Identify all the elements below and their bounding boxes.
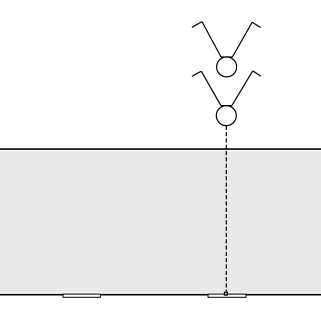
F2 right arm bbox=[232, 71, 253, 106]
fixture F1 (upper double-arm spotlight symbol) bbox=[192, 22, 261, 77]
wall bottom edge line bbox=[0, 294, 321, 296]
window W2 (sill rectangle) bbox=[208, 294, 246, 297]
wall top edge line bbox=[0, 148, 321, 150]
F2 right tick bbox=[253, 71, 261, 76]
F1 top chord bbox=[221, 56, 232, 58]
F2 left arm bbox=[201, 71, 221, 105]
F2 lamp circle bbox=[216, 106, 236, 126]
F1 lamp circle bbox=[217, 57, 237, 77]
wall face (shaded band) bbox=[0, 151, 321, 292]
dashed leader line bbox=[225, 126, 227, 292]
F2 left tick bbox=[192, 71, 201, 76]
F1 right tick bbox=[252, 22, 260, 27]
F1 left tick bbox=[192, 22, 202, 28]
window W1 (sill rectangle) bbox=[63, 294, 100, 297]
leader arrowhead at fixture F2 bbox=[225, 125, 228, 128]
F2 top chord bbox=[221, 105, 232, 107]
junction box node on wall line bbox=[225, 292, 228, 295]
fixture F2 (lower double-arm spotlight symbol) bbox=[192, 71, 261, 126]
F1 left arm bbox=[202, 22, 221, 57]
F1 right arm bbox=[232, 22, 252, 57]
